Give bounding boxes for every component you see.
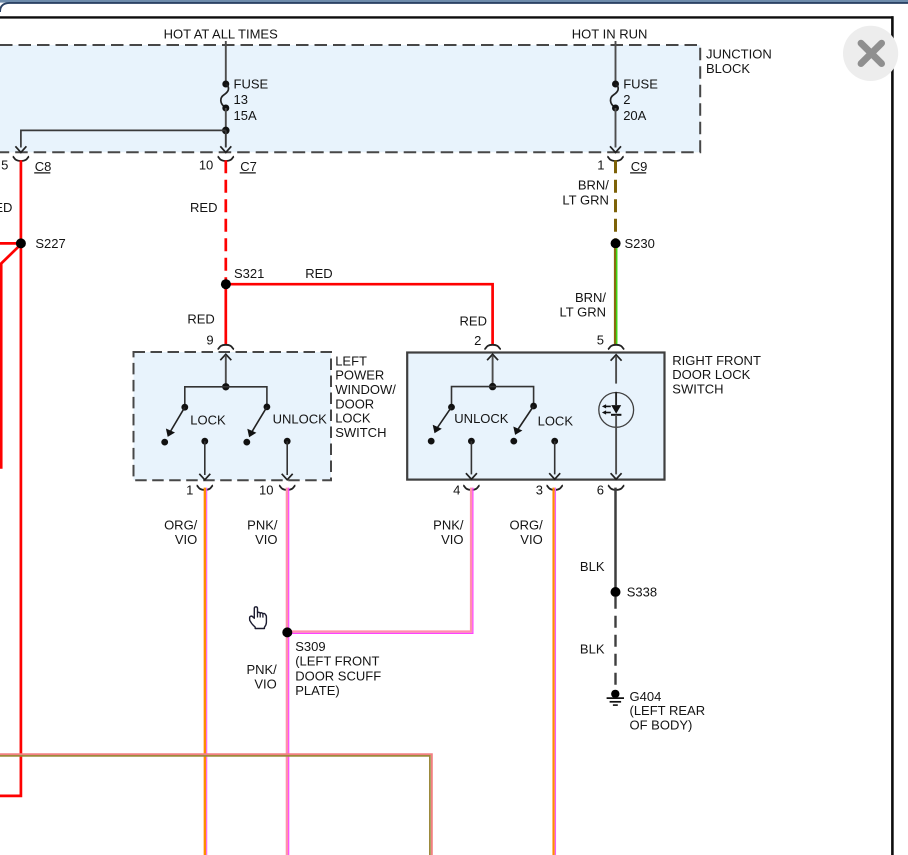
svg-text:4: 4 [453,483,460,498]
svg-text:SWITCH: SWITCH [335,425,386,440]
wire label ORG/VIO pin 1 [164,518,198,548]
wire label PNK/VIO pin 10 [247,518,278,548]
svg-text:(LEFT FRONT: (LEFT FRONT [295,654,379,669]
svg-text:5: 5 [597,332,604,347]
svg-text:HOT AT ALL TIMES: HOT AT ALL TIMES [164,26,278,41]
svg-text:PLATE): PLATE) [295,683,340,698]
splice S338 [611,585,658,600]
svg-text:LOCK: LOCK [538,414,574,429]
wire red S227 main down to bottom left [0,243,21,796]
wire red S321 to pin 2 [226,284,493,345]
node switch common left box [222,383,229,390]
svg-text:LT GRN: LT GRN [560,305,606,320]
wire BRN/LT GRN solid S230 to pin 5 [615,248,617,345]
led emission arrows [602,404,611,414]
fuse 2 value label [623,77,658,124]
svg-text:RED: RED [305,266,332,281]
wire pin 2 shaft [492,356,494,387]
wire feed to fuse 2 [615,41,617,84]
lock switch lower contact left box [161,439,168,446]
wire junction to C8 [21,130,226,147]
connector C8 [1,157,51,175]
svg-text:2: 2 [474,333,481,348]
svg-text:SWITCH: SWITCH [672,381,723,396]
unlock switch contact left box [264,404,271,411]
wire label BRN/LT GRN lower [560,290,607,319]
fuse 13 value label [234,77,269,124]
wire feed to fuse 13 [225,41,227,84]
connector C9 [597,157,647,175]
svg-text:ORG/: ORG/ [164,518,198,533]
wire RED C8 to S227 [20,160,23,243]
svg-text:PNK/: PNK/ [246,662,277,677]
pin 4 contact and arrow [466,438,477,480]
svg-text:2: 2 [623,92,630,107]
dialog top border [0,3,908,12]
ground G404 label [630,689,706,733]
svg-text:DOOR LOCK: DOOR LOCK [672,367,750,382]
wire label PNK/VIO pin 4 [433,518,464,548]
svg-text:BRN/: BRN/ [575,290,606,305]
svg-text:VIO: VIO [175,532,197,547]
svg-text:JUNCTION: JUNCTION [706,46,772,61]
svg-text:5: 5 [1,157,8,172]
svg-text:6: 6 [597,483,604,498]
svg-text:VIO: VIO [255,532,277,547]
pin 10 contact and arrow [282,438,293,480]
wire BRN/LT GRN dashed C9 to S230 [614,160,617,239]
wire label ORG/VIO pin 3 [509,518,543,548]
wire label PNK/VIO at S309 [246,662,277,692]
close button [843,26,898,81]
svg-text:VIO: VIO [254,677,276,692]
wire TAN/RED bottom horizontal [0,754,432,855]
junction node below fuse 13 [222,127,230,135]
unlock switch lower contact right box [428,438,435,445]
arrow into C7 [220,146,231,152]
junction block label [706,46,772,76]
svg-text:G404: G404 [630,689,662,704]
pin 9 connector cup [218,345,234,350]
pin 1 connector cup [186,483,213,498]
svg-text:(LEFT REAR: (LEFT REAR [630,703,706,718]
splice S227 [16,236,66,251]
wire BLK pin 6 to S338 [614,488,617,592]
wire red S321 to pin 9 [224,284,227,345]
wire led upper shaft [615,356,617,383]
arrow into C8 [15,146,26,152]
wire PNK/VIO S309 to pin 4 [287,488,473,634]
left switch label [335,353,396,440]
junction block dashed border [0,45,700,152]
wire junction to C7 [225,130,227,147]
svg-text:C9: C9 [631,159,648,174]
splice S321 [221,266,264,289]
svg-text:RED: RED [0,200,12,215]
wire RED dashed C7 to S321 [224,160,227,281]
unlock switch lower contact left box [243,439,250,446]
pin 6 connector cup [597,483,625,498]
svg-text:DOOR SCUFF: DOOR SCUFF [295,668,381,683]
pin 2 connector cup [484,345,500,350]
svg-text:C7: C7 [240,159,257,174]
splice S309 label [295,639,381,698]
svg-text:LEFT: LEFT [335,353,367,368]
wire ORG/VIO pin 3 down [554,488,556,855]
svg-text:HOT IN RUN: HOT IN RUN [572,26,648,41]
unlock switch contact right box [448,404,455,411]
right switch label [672,353,761,397]
svg-text:10: 10 [259,483,273,498]
svg-text:S227: S227 [35,236,65,251]
svg-text:VIO: VIO [520,532,542,547]
led diode symbol [611,392,621,415]
pin 2 arrow up [487,354,498,360]
svg-text:BRN/: BRN/ [578,177,609,192]
unlock switch arm left box [247,407,267,437]
wire fuse 13 to junction [225,108,227,130]
pin 5 arrow up inside box [611,355,622,361]
pin 5 connector cup [608,345,624,350]
svg-text:S321: S321 [234,266,264,281]
pin 10 connector cup [259,483,295,498]
lock switch contact right box [530,403,537,410]
splice S309 [282,627,292,637]
svg-text:UNLOCK: UNLOCK [454,411,509,426]
pin 6 arrow down [611,473,622,479]
diagram frame right line [891,16,894,855]
svg-text:LOCK: LOCK [335,411,371,426]
wire label BRN/LT GRN upper [562,177,609,207]
svg-text:OF BODY): OF BODY) [630,717,693,732]
pin 3 connector cup [536,483,563,498]
svg-text:9: 9 [206,332,213,347]
svg-text:VIO: VIO [441,532,463,547]
wire switch branch right box [452,387,534,408]
svg-text:FUSE: FUSE [623,77,658,92]
wire switch branch left box [185,387,267,407]
pin 4 connector cup [453,483,480,498]
svg-text:BLOCK: BLOCK [706,61,750,76]
svg-text:13: 13 [234,92,248,107]
svg-text:RIGHT FRONT: RIGHT FRONT [672,353,761,368]
svg-text:DOOR: DOOR [335,396,374,411]
svg-text:RED: RED [460,314,487,329]
svg-text:S230: S230 [625,236,655,251]
left power window/door lock switch box [134,352,332,480]
splice S230 [611,236,655,251]
svg-text:1: 1 [186,483,193,498]
junction block fill [0,45,700,152]
diagram frame top line [0,16,894,18]
svg-text:C8: C8 [35,159,52,174]
svg-text:S309: S309 [295,639,325,654]
wire PNK/VIO pin 10 down [287,488,289,855]
connector C7 [199,157,257,175]
lock switch arm right box [513,406,533,435]
pin 9 arrow up [220,354,231,360]
pin 1 contact and arrow [199,438,210,480]
wire pin 9 shaft [225,356,227,387]
lock switch lower contact right box [510,438,517,445]
led U1 circle [599,393,634,428]
svg-text:FUSE: FUSE [234,77,269,92]
wire red stub left of S227 [0,242,21,245]
fuse 13 [221,81,230,112]
svg-text:S338: S338 [627,585,657,600]
svg-text:RED: RED [190,200,217,215]
svg-text:ORG/: ORG/ [509,518,543,533]
svg-text:LT GRN: LT GRN [562,192,608,207]
wire fuse 2 to C9 [615,108,617,148]
wire led lower shaft [615,415,617,475]
svg-text:1: 1 [597,157,604,172]
wire ORG/VIO pin 1 down [205,488,207,855]
wire BLK dashed S338 to ground [614,597,616,689]
svg-text:20A: 20A [623,108,646,123]
pin 3 contact and arrow [549,438,560,480]
svg-text:LOCK: LOCK [190,413,226,428]
node switch common right box [489,383,496,390]
svg-text:WINDOW/: WINDOW/ [335,382,396,397]
unlock switch arm right box [433,407,452,433]
svg-text:15A: 15A [234,108,257,123]
lock switch arm left box [166,407,185,437]
svg-text:BLK: BLK [580,559,605,574]
svg-text:PNK/: PNK/ [433,518,464,533]
svg-text:3: 3 [536,483,543,498]
cursor hand pointer [250,607,267,629]
svg-text:RED: RED [187,312,214,327]
svg-text:UNLOCK: UNLOCK [273,412,328,427]
ground G404 [607,690,624,705]
right front door lock switch box [407,353,664,480]
svg-text:10: 10 [199,157,213,172]
wire red S227 down-left branch [1,245,20,468]
svg-text:POWER: POWER [335,368,384,383]
arrow into C9 [610,146,621,152]
fuse 2 [610,81,619,112]
browser top strip [0,0,908,3]
lock switch contact left box [181,404,188,411]
svg-text:PNK/: PNK/ [247,518,278,533]
svg-text:BLK: BLK [580,642,605,657]
